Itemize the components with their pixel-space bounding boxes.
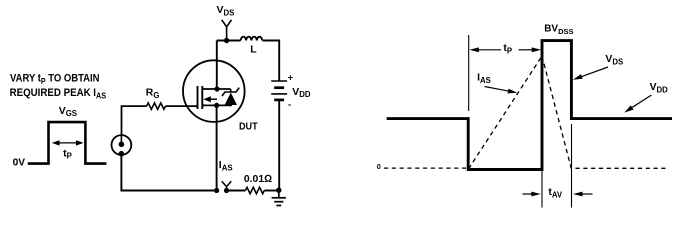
tP dimension arrows <box>469 47 541 52</box>
dimension line tAV left <box>541 171 543 208</box>
label IAS (graph) with arrow <box>477 72 517 93</box>
label VDS (graph) with arrow <box>573 54 623 79</box>
node VDS junction dot <box>224 38 229 43</box>
drain link <box>202 88 230 90</box>
dashed zero line left <box>384 167 467 169</box>
svg-text:0V: 0V <box>13 157 26 168</box>
body arrow <box>209 98 217 100</box>
junction dot drain <box>214 86 219 91</box>
wire gate to MOSFET <box>166 105 198 107</box>
dashed IAS decay <box>542 56 571 169</box>
wire battery to ground rail <box>278 100 280 190</box>
dashed IAS ramp <box>469 56 542 169</box>
source link <box>202 104 232 106</box>
wire bottom rail to shunt <box>227 190 246 192</box>
svg-text:0: 0 <box>377 162 381 171</box>
label VDD (graph) with arrow <box>624 82 668 113</box>
dashed zero line right <box>576 167 670 169</box>
svg-text:VARY tP TO OBTAIN: VARY tP TO OBTAIN <box>10 73 100 87</box>
wire gate horizontal <box>122 106 147 135</box>
dimension line tP start <box>468 35 470 111</box>
pulse generator V1 <box>112 135 132 156</box>
node ground junction dot <box>276 188 281 193</box>
note: VARY tP TO OBTAIN / REQUIRED PEAK IAS <box>10 73 107 101</box>
IAS probe <box>222 181 232 190</box>
junction dot source <box>214 103 219 108</box>
svg-text:DUT: DUT <box>239 122 258 133</box>
ground <box>272 190 286 205</box>
wire drain vertical <box>216 41 218 90</box>
dimension line tAV right <box>571 124 573 208</box>
VDS probe <box>222 20 232 41</box>
resistor 0.01ohm <box>245 187 264 193</box>
VGS pulse waveform <box>28 122 107 164</box>
wire top rail right <box>263 41 280 82</box>
gate bar <box>197 86 199 109</box>
wire top rail <box>217 40 241 42</box>
tAV dimension arrows <box>523 192 593 197</box>
svg-text:-: - <box>288 99 291 110</box>
resistor RG <box>147 103 166 109</box>
svg-text:REQUIRED PEAK IAS: REQUIRED PEAK IAS <box>10 87 107 101</box>
wire shunt to ground <box>264 190 279 192</box>
tP double arrow <box>52 140 84 145</box>
channel bar <box>201 86 203 109</box>
MOSFET DUT <box>183 60 245 122</box>
wire generator to bottom rail <box>121 155 216 191</box>
node IAS junction dots <box>214 188 219 193</box>
battery VDD <box>271 81 287 100</box>
zener bar <box>222 88 239 96</box>
body diode <box>225 93 237 105</box>
inductor L <box>241 37 262 41</box>
svg-text:0.01Ω: 0.01Ω <box>244 174 272 185</box>
svg-text:+: + <box>288 73 294 84</box>
svg-text:L: L <box>250 45 257 56</box>
VDS waveform trace <box>387 41 672 170</box>
wire source vertical <box>216 105 218 190</box>
